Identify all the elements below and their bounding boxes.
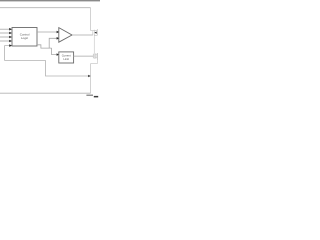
arrowhead body of Q1 <box>94 32 96 34</box>
wire input 1 <box>0 28 9 30</box>
wire right rail <box>90 8 92 31</box>
block current limit U2 <box>59 52 74 63</box>
arrowhead input 1 <box>9 28 12 31</box>
wire feedback lower run to right rail <box>46 60 91 76</box>
arrowhead input 4 <box>9 40 12 43</box>
svg-text:Logic: Logic <box>21 36 29 40</box>
wire Q2 source to right rail <box>91 60 98 64</box>
transistor Q1 (top pass FET) <box>91 29 98 36</box>
wire Q1 source down to Q2 drain <box>93 36 95 53</box>
wire branch up to amp lower input <box>49 38 57 48</box>
block control logic U1 <box>12 28 37 47</box>
wire control logic bottom output routing <box>37 45 52 48</box>
arrowhead input 3 <box>9 36 12 39</box>
logo fragment bottom right <box>86 94 93 97</box>
svg-text:Limit: Limit <box>63 57 69 61</box>
wire current limit output to gate of bottom FET <box>74 55 94 57</box>
wire branch down to current limit input <box>52 48 57 55</box>
wire feedback left leg to control logic <box>5 46 46 61</box>
arrowhead current limit input <box>57 53 59 56</box>
transistor Q2 (bottom FET) <box>93 53 97 60</box>
wire control logic output to amp top input <box>37 31 57 33</box>
top grey bar <box>0 0 100 1</box>
arrowhead feedback junction at right rail <box>88 75 90 77</box>
wire input 4 <box>0 40 9 42</box>
arrowhead amp lower input <box>57 37 60 40</box>
wire right rail lower <box>90 64 92 94</box>
op-amp driver A1 <box>59 28 72 43</box>
arrowhead amp top input <box>57 31 60 34</box>
arrowhead input 2 <box>9 32 12 35</box>
wire input 2 <box>0 32 9 34</box>
wire Q1 bulk stub <box>96 32 99 34</box>
wire top rail <box>0 7 91 9</box>
wire input 3 <box>0 36 9 38</box>
wire amp output to gate of top FET <box>72 34 93 36</box>
arrowhead feedback input <box>9 44 12 47</box>
wire bottom rail <box>0 92 91 94</box>
